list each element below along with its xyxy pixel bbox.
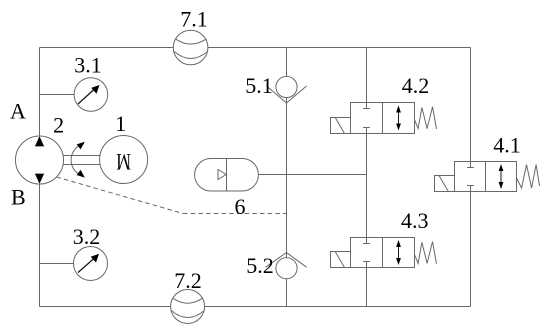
svg-text:4.1: 4.1 [493,133,521,158]
svg-text:5.1: 5.1 [245,73,273,98]
svg-text:1: 1 [115,111,126,136]
svg-text:4.3: 4.3 [401,208,429,233]
svg-text:3.1: 3.1 [74,53,102,78]
svg-text:M: M [116,148,131,173]
svg-text:2: 2 [53,113,64,138]
svg-text:7.2: 7.2 [174,268,202,293]
svg-text:6: 6 [235,194,246,219]
svg-text:5.2: 5.2 [246,253,274,278]
svg-text:7.1: 7.1 [180,7,208,32]
svg-text:B: B [11,185,26,210]
svg-text:4.2: 4.2 [402,73,430,98]
svg-text:A: A [10,98,26,123]
svg-text:3.2: 3.2 [73,224,101,249]
